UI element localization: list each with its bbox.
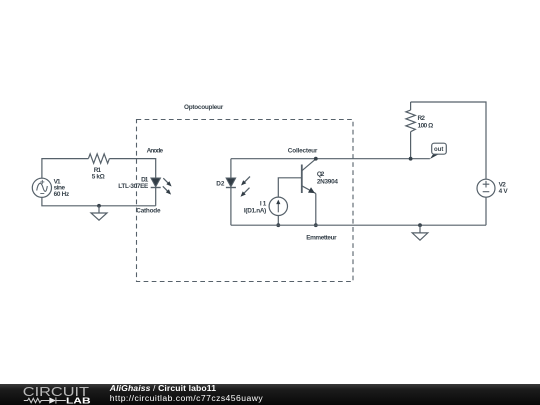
wire V2 bottom (485, 197, 487, 225)
ground (412, 225, 428, 240)
node out flag (430, 143, 446, 159)
wire Q2 emitter down (315, 194, 317, 226)
junction collector (314, 157, 318, 161)
svg-text:LTL-307EE: LTL-307EE (118, 183, 149, 190)
wire D1 cathode to bottom rail back to V1 (42, 197, 156, 205)
I1 label (244, 201, 267, 215)
svg-text:Q2: Q2 (317, 171, 325, 178)
svg-text:Anode: Anode (147, 148, 164, 155)
wire V1 top to R1 (42, 159, 89, 179)
wire D2 cathode down (230, 188, 232, 226)
svg-text:Emmetteur: Emmetteur (306, 235, 337, 242)
LED D2 (226, 177, 250, 197)
svg-text:AliGhaiss / Circuit labo11: AliGhaiss / Circuit labo11 (109, 383, 216, 393)
wire R2 bottom lead (410, 132, 412, 159)
junction left ground (97, 204, 101, 208)
CircuitLab logo (23, 385, 91, 405)
Q2 label (317, 171, 338, 185)
svg-text:out: out (434, 147, 443, 153)
current source I1 (269, 197, 287, 215)
svg-text:Optocoupleur: Optocoupleur (184, 104, 224, 111)
V2 label (499, 181, 509, 195)
wire top rail to V2 (411, 102, 486, 179)
wire I1 to Q2 base (278, 178, 302, 197)
V1 label (54, 178, 70, 198)
transistor Q2 (302, 159, 316, 194)
svg-text:R2: R2 (418, 115, 426, 122)
resistor R2 (406, 110, 415, 132)
resistor R1 (88, 154, 109, 163)
ground (91, 206, 107, 220)
voltage source V2 (477, 179, 495, 197)
svg-text:Cathode: Cathode (136, 208, 161, 215)
R2 label (418, 115, 434, 130)
svg-text:4 V: 4 V (499, 188, 509, 195)
junction R2 bottom (409, 157, 413, 161)
svg-text:I(D1.nA): I(D1.nA) (244, 208, 266, 215)
svg-text:60 Hz: 60 Hz (54, 191, 70, 198)
wire D2 anode (230, 159, 232, 178)
svg-text:http://circuitlab.com/c77czs45: http://circuitlab.com/c77czs456uawy (110, 393, 264, 403)
wire R2 top lead (410, 102, 412, 110)
svg-text:I1: I1 (260, 201, 267, 208)
footer bar (0, 384, 540, 405)
svg-text:D2: D2 (216, 181, 225, 188)
svg-text:Collecteur: Collecteur (288, 148, 318, 155)
voltage source V1 (32, 178, 51, 197)
D1 label (118, 176, 149, 190)
svg-text:2N3904: 2N3904 (317, 178, 338, 185)
junction I1 bottom (276, 223, 280, 227)
optocoupler boundary box (137, 120, 354, 282)
junction emitter (314, 223, 318, 227)
junction right ground (418, 223, 422, 227)
LED D1 (151, 178, 172, 206)
svg-text:100 Ω: 100 Ω (418, 123, 434, 130)
wire bottom rail (231, 224, 486, 226)
wire R1 to D1 anode (109, 159, 155, 178)
wire I1 bottom (277, 216, 279, 226)
R1 label (92, 167, 105, 181)
svg-text:5 kΩ: 5 kΩ (92, 174, 105, 181)
svg-text:LAB: LAB (66, 395, 91, 405)
wire mid rail D2 to out (231, 158, 430, 160)
